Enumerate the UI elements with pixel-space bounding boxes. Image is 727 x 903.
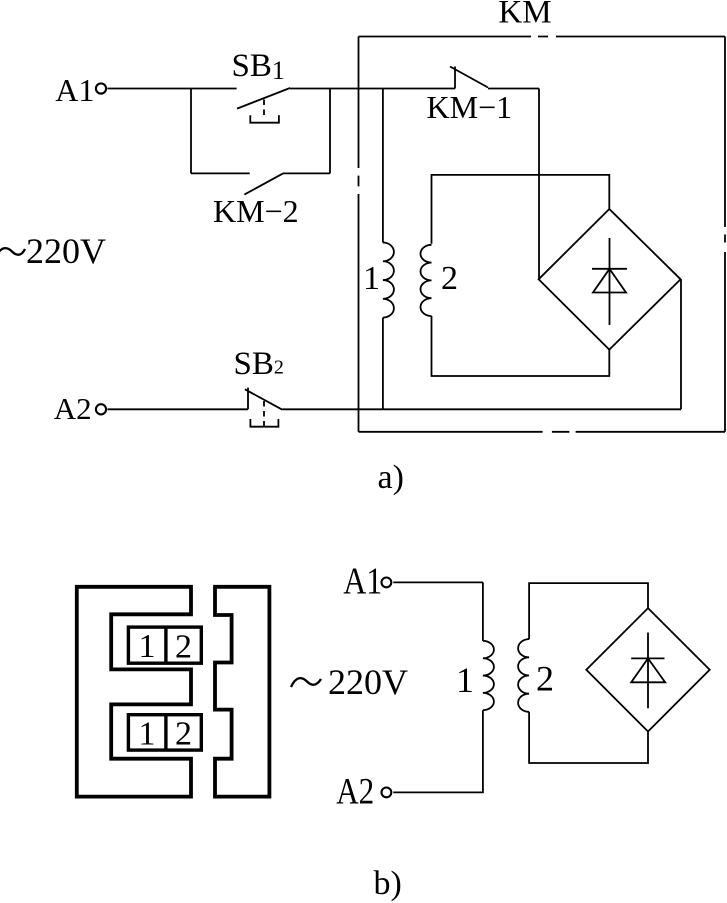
wire A1 to coil 1 (part b) [393, 582, 483, 641]
svg-text:1: 1 [363, 260, 380, 297]
wire SB2 to bridge right vertex [282, 279, 681, 409]
wire coil 1 to A2 (part b) [393, 710, 483, 792]
svg-text:a): a) [378, 459, 404, 496]
winding box lower (part b) [128, 715, 201, 750]
svg-text:A1: A1 [343, 560, 382, 602]
svg-text:2: 2 [441, 260, 458, 297]
armature I-piece (part b) [215, 587, 269, 797]
coil 2 loop (secondary, part a) [420, 175, 609, 376]
coil 2 loop (part b) [518, 583, 648, 763]
svg-text:A2: A2 [336, 772, 374, 812]
svg-text:2: 2 [175, 629, 192, 666]
rectifier bridge diamond (part a) [539, 209, 681, 350]
enclosure KM (dash-dot border box) [359, 37, 726, 432]
coil 1 (primary, part a) [383, 89, 394, 410]
svg-text:A2: A2 [54, 391, 92, 426]
terminal A1 (part b) [382, 578, 392, 588]
contact KM-1 (NC riser + blade) [450, 67, 488, 89]
winding box upper (part b) [128, 627, 201, 663]
svg-text:KM: KM [498, 0, 551, 31]
pushbutton SB1 (NO, blade+plunger) [237, 88, 290, 123]
pushbutton SB2 (NC riser + blade + plunger) [245, 388, 282, 427]
svg-text:2: 2 [175, 716, 192, 753]
terminal A2 [96, 404, 106, 414]
magnet core E-piece (part b) [77, 587, 191, 797]
terminal A2 (part b) [382, 788, 392, 798]
wire SB1 to KM-1 [290, 88, 455, 90]
coil 1 (part b) [483, 641, 494, 710]
svg-text:KM−1: KM−1 [427, 89, 513, 125]
diode D (part b) [631, 633, 665, 709]
svg-text:220V: 220V [26, 231, 106, 271]
svg-text:A1: A1 [55, 72, 94, 108]
label ~220V (part a) [0, 248, 25, 257]
wire A2 to SB2 [108, 408, 249, 410]
svg-text:b): b) [374, 865, 402, 902]
node junction at x191 [190, 89, 192, 174]
svg-text:1: 1 [139, 628, 156, 665]
svg-text:KM−2: KM−2 [213, 193, 299, 229]
label ~220V (part b) [291, 678, 321, 687]
contact KM-2 (NO) [191, 89, 330, 195]
diode D (part a) [592, 238, 627, 325]
svg-text:2: 2 [536, 659, 554, 699]
svg-text:1: 1 [139, 716, 156, 753]
wire KM-1 to bridge left vertex [488, 89, 539, 280]
terminal A1 [96, 83, 106, 93]
rectifier bridge diamond (part b) [586, 608, 709, 731]
wire A1 to SB1 [108, 88, 237, 90]
svg-text:1: 1 [456, 660, 474, 700]
svg-text:220V: 220V [328, 662, 408, 702]
